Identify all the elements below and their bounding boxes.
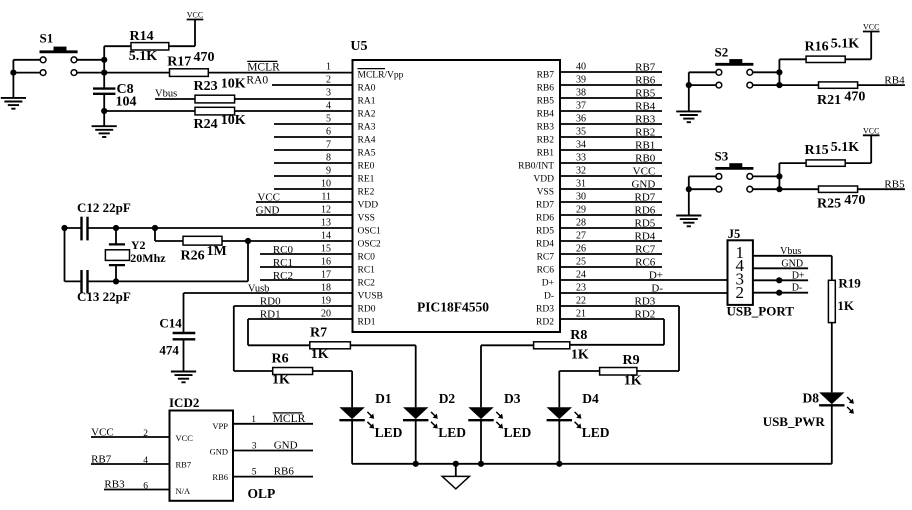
svg-text:R6: R6 [272,352,289,367]
svg-text:39: 39 [576,75,586,86]
svg-text:16: 16 [321,257,331,268]
svg-text:10: 10 [321,179,331,190]
svg-text:RB3: RB3 [635,113,656,125]
svg-text:VCC: VCC [91,426,114,438]
svg-text:RB2: RB2 [537,136,555,146]
svg-text:13: 13 [321,218,331,229]
svg-text:26: 26 [576,244,586,255]
svg-text:D-: D- [544,292,554,302]
svg-text:R9: R9 [623,353,640,368]
svg-text:4: 4 [143,456,148,466]
svg-text:S1: S1 [40,31,54,46]
svg-text:RC7: RC7 [635,243,656,255]
svg-text:GND: GND [256,205,280,217]
svg-text:5.1K: 5.1K [129,49,158,64]
svg-text:RC6: RC6 [635,256,656,268]
svg-text:RD7: RD7 [536,201,554,211]
svg-text:OSC1: OSC1 [358,227,381,237]
svg-text:RC1: RC1 [273,257,293,269]
svg-text:RB5: RB5 [635,87,656,99]
svg-text:8: 8 [326,153,331,164]
svg-text:VPP: VPP [212,421,228,431]
svg-text:1M: 1M [207,244,227,259]
svg-text:23: 23 [576,283,586,294]
svg-text:RA1: RA1 [358,97,376,107]
svg-text:RD3: RD3 [536,305,554,315]
svg-text:1K: 1K [837,298,855,313]
svg-text:D8: D8 [803,391,820,406]
svg-text:U5: U5 [350,39,367,54]
svg-text:R24: R24 [194,117,218,132]
svg-text:R26: R26 [181,249,205,264]
svg-text:GND: GND [781,258,803,269]
svg-text:1K: 1K [571,348,589,363]
svg-text:OLP: OLP [248,486,276,501]
svg-text:RD7: RD7 [635,191,656,203]
svg-text:36: 36 [576,114,586,125]
svg-text:RD4: RD4 [536,240,554,250]
svg-text:9: 9 [326,166,331,177]
svg-text:40: 40 [576,62,586,73]
svg-text:RD1: RD1 [358,318,376,328]
svg-text:17: 17 [321,270,331,281]
svg-text:22: 22 [576,296,586,307]
svg-text:RA0: RA0 [246,74,268,86]
svg-text:RD5: RD5 [635,217,656,229]
svg-text:N/A: N/A [176,486,192,496]
svg-text:RD0: RD0 [358,305,376,315]
svg-text:38: 38 [576,88,586,99]
svg-text:VCC: VCC [863,23,879,32]
svg-text:C13 22pF: C13 22pF [77,289,131,304]
svg-text:D4: D4 [582,391,599,406]
svg-text:6: 6 [326,127,331,138]
svg-text:PIC18F4550: PIC18F4550 [417,300,489,315]
svg-text:D2: D2 [439,391,456,406]
svg-text:RB4: RB4 [635,100,656,112]
svg-text:RE1: RE1 [358,175,375,185]
svg-text:RD6: RD6 [635,204,656,216]
svg-text:RB6: RB6 [537,84,555,94]
svg-text:33: 33 [576,153,586,164]
svg-text:RC7: RC7 [537,253,555,263]
svg-text:7: 7 [326,140,331,151]
svg-text:RB7: RB7 [635,61,656,73]
svg-text:MCLR: MCLR [247,61,280,73]
svg-text:RD1: RD1 [260,309,281,321]
svg-text:C12 22pF: C12 22pF [77,200,131,215]
svg-text:5: 5 [326,114,331,125]
svg-text:Vusb: Vusb [248,284,270,295]
svg-text:R19: R19 [838,276,861,291]
svg-text:GND: GND [631,178,655,190]
svg-text:GND: GND [274,440,298,452]
svg-text:28: 28 [576,218,586,229]
svg-text:R14: R14 [130,29,154,44]
svg-text:6: 6 [143,481,148,491]
svg-text:RB0/INT: RB0/INT [518,162,554,172]
svg-text:RC0: RC0 [273,244,294,256]
svg-text:5: 5 [252,467,257,477]
svg-text:R15: R15 [805,143,829,158]
svg-text:OSC2: OSC2 [358,240,381,250]
svg-text:37: 37 [576,101,586,112]
svg-text:RB1: RB1 [537,149,555,159]
svg-text:R7: R7 [310,326,327,341]
svg-text:VSS: VSS [537,188,554,198]
svg-text:35: 35 [576,127,586,138]
svg-text:14: 14 [321,231,331,242]
svg-text:2: 2 [326,75,331,86]
svg-text:D3: D3 [504,391,521,406]
svg-text:474: 474 [159,343,179,358]
svg-text:1K: 1K [272,373,290,388]
svg-text:R16: R16 [805,40,829,55]
svg-text:J5: J5 [728,227,741,241]
svg-text:RD0: RD0 [260,296,281,308]
svg-text:12: 12 [321,205,331,216]
svg-text:MCLR: MCLR [273,413,306,425]
svg-text:RB2: RB2 [635,126,655,138]
svg-text:LED: LED [438,425,466,440]
svg-text:RA2: RA2 [358,110,376,120]
svg-text:D1: D1 [375,391,392,406]
svg-text:RB6: RB6 [635,74,656,86]
svg-text:RC6: RC6 [537,266,555,276]
svg-text:31: 31 [576,179,586,190]
svg-text:470: 470 [844,90,865,105]
svg-text:104: 104 [116,95,137,110]
svg-text:24: 24 [576,270,586,281]
svg-text:15: 15 [321,244,331,255]
svg-text:RC0: RC0 [358,253,376,263]
svg-text:11: 11 [321,192,331,203]
svg-text:RB7: RB7 [537,71,555,81]
svg-text:18: 18 [321,283,331,294]
svg-text:10K: 10K [221,77,246,92]
svg-text:10K: 10K [221,113,246,128]
svg-text:30: 30 [576,192,586,203]
svg-text:VCC: VCC [257,192,280,204]
svg-text:VCC: VCC [633,165,656,177]
svg-text:LED: LED [375,425,403,440]
svg-text:RD5: RD5 [536,227,554,237]
svg-text:2: 2 [143,429,148,439]
svg-text:4: 4 [326,101,331,112]
svg-text:RC2: RC2 [358,279,376,289]
svg-text:ICD2: ICD2 [169,395,199,410]
svg-text:D-: D- [792,283,803,294]
svg-text:RC2: RC2 [273,270,293,282]
svg-text:LED: LED [504,425,532,440]
svg-text:R8: R8 [570,328,587,343]
svg-text:RE2: RE2 [358,188,375,198]
svg-text:RA3: RA3 [358,123,376,133]
svg-text:RD6: RD6 [536,214,554,224]
svg-text:C14: C14 [159,316,182,331]
svg-text:RB5: RB5 [537,97,555,107]
svg-text:VDD: VDD [358,201,379,211]
svg-text:Y2: Y2 [131,238,146,252]
svg-text:RB6: RB6 [274,465,295,477]
svg-text:RB4: RB4 [884,74,905,86]
svg-text:R25: R25 [817,197,841,212]
svg-text:27: 27 [576,231,586,242]
svg-text:LED: LED [582,425,610,440]
svg-text:MCLR/Vpp: MCLR/Vpp [358,71,404,81]
svg-text:VUSB: VUSB [358,292,383,302]
svg-text:29: 29 [576,205,586,216]
svg-text:VDD: VDD [533,175,554,185]
svg-text:VCC: VCC [863,126,879,135]
svg-text:RB7: RB7 [176,460,192,470]
svg-text:USB_PORT: USB_PORT [727,304,795,319]
svg-text:1: 1 [251,415,256,425]
svg-text:D-: D- [651,282,663,294]
svg-text:R17: R17 [167,54,191,69]
svg-text:34: 34 [576,140,586,151]
svg-text:RB3: RB3 [104,478,125,490]
svg-text:GND: GND [210,447,228,457]
svg-text:RB0: RB0 [635,152,656,164]
svg-text:1: 1 [326,62,331,73]
svg-text:RD2: RD2 [635,308,656,320]
svg-text:RE0: RE0 [358,162,375,172]
svg-text:RB3: RB3 [537,123,555,133]
svg-text:RC1: RC1 [358,266,376,276]
svg-text:D+: D+ [649,269,663,281]
svg-text:3: 3 [252,441,257,451]
svg-text:VCC: VCC [176,433,194,443]
svg-text:Vbus: Vbus [780,246,801,257]
svg-text:20Mhz: 20Mhz [130,251,166,265]
svg-text:32: 32 [576,166,586,177]
svg-text:1K: 1K [311,347,329,362]
svg-text:S2: S2 [715,45,729,60]
svg-text:USB_PWR: USB_PWR [763,414,826,429]
svg-text:R23: R23 [194,79,218,94]
svg-text:RA5: RA5 [358,149,376,159]
svg-text:S3: S3 [715,149,729,164]
svg-text:RD3: RD3 [635,295,656,307]
svg-text:RB4: RB4 [537,110,555,120]
svg-text:470: 470 [194,50,215,65]
svg-text:2: 2 [736,283,745,302]
svg-text:RB6: RB6 [212,472,228,482]
svg-text:D+: D+ [792,270,805,281]
svg-text:19: 19 [321,296,331,307]
svg-text:1K: 1K [624,374,642,389]
svg-text:VSS: VSS [358,214,375,224]
svg-text:20: 20 [321,309,331,320]
svg-text:VCC: VCC [187,11,203,20]
svg-text:RD2: RD2 [536,318,554,328]
svg-text:RA4: RA4 [358,136,376,146]
svg-text:D+: D+ [542,279,554,289]
svg-text:470: 470 [844,193,865,208]
svg-text:RD4: RD4 [635,230,656,242]
svg-text:3: 3 [326,88,331,99]
svg-text:R21: R21 [817,93,841,108]
svg-text:5.1K: 5.1K [831,140,860,155]
svg-text:RA0: RA0 [358,84,376,94]
svg-text:RB5: RB5 [884,178,905,190]
svg-text:21: 21 [576,309,586,320]
svg-text:RB1: RB1 [635,139,655,151]
svg-text:5.1K: 5.1K [831,37,860,52]
svg-text:25: 25 [576,257,586,268]
svg-text:Vbus: Vbus [155,89,177,100]
svg-text:RB7: RB7 [91,453,112,465]
